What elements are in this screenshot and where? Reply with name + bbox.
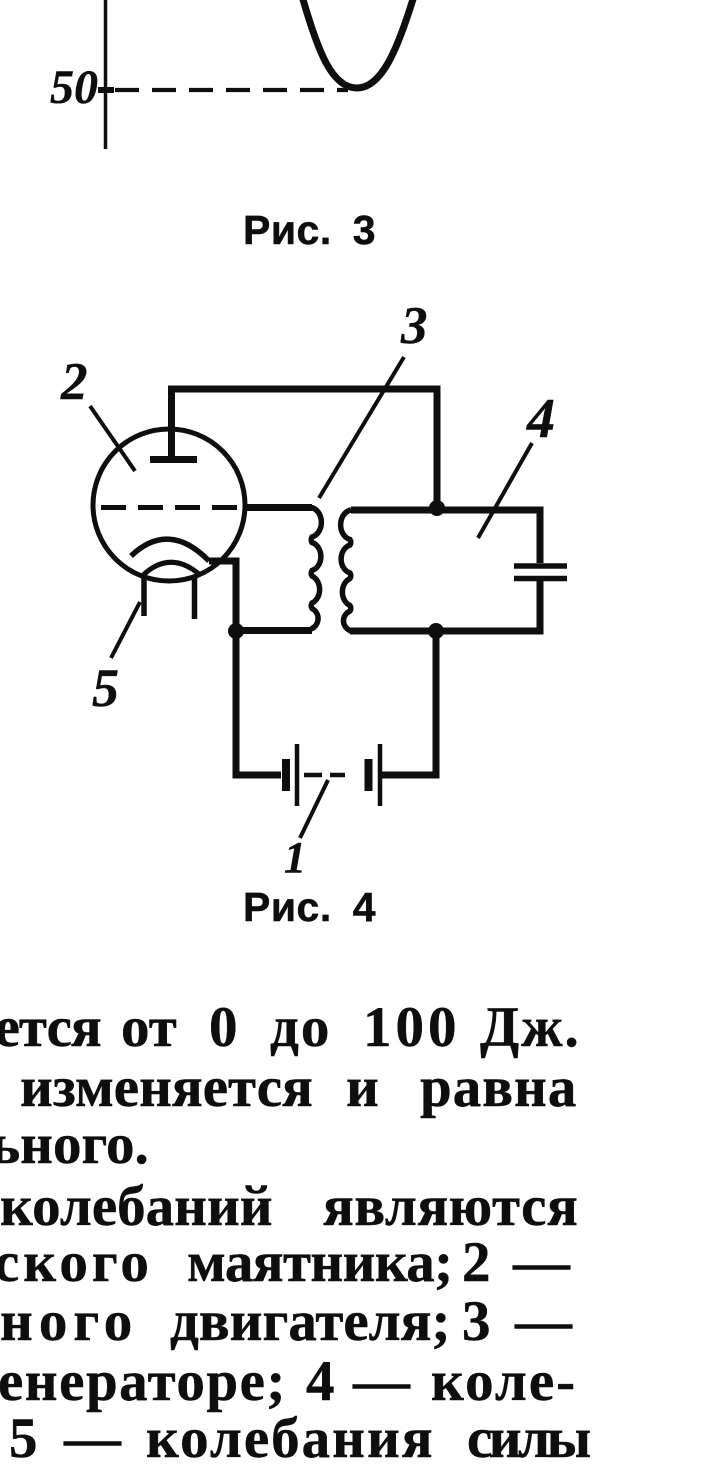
wire: coil L1 bottom to left junction [236,627,312,634]
capacitor C bottom plate [514,576,567,582]
wire: right junction down to battery [382,631,436,775]
battery B cell1 positive plate [295,744,300,806]
tube anode plate [150,456,197,463]
graph: vertical axis [104,0,108,149]
battery B cell2 negative plate [365,759,373,791]
label: 5 (heater lead) [92,657,119,719]
caption Fig.3 [243,207,376,254]
graph: curve trough [302,0,414,88]
tube grid (dashed) [101,505,245,510]
tube cathode arc [131,539,209,561]
battery B cell1 negative plate [282,759,290,791]
graph: dashed level line y=50 [115,88,348,92]
graph: axis tick at 50 [98,87,114,93]
leader line label 5 [111,602,140,658]
label: 4 (tank) [527,387,555,451]
label: 3 (coil) [401,296,428,356]
tube V envelope [93,429,245,581]
wire: tank top to capacitor [351,510,540,563]
node: junction bottom left [228,623,244,639]
node: junction bottom right [428,623,444,639]
battery B cell2 positive plate [378,744,383,806]
label: 50 on axis [50,60,98,115]
caption Fig.4 [243,884,376,931]
coil L1 (grid winding) [311,508,321,630]
paragraph lines [0,994,1,996]
battery B dashed middle [304,773,345,778]
tube heater leg left [141,574,147,616]
leader line label 1 [300,780,328,838]
tube heater arc [141,562,199,577]
tube anode lead and top wire to grid-coil junction [172,389,438,504]
node: junction top (grid feedback) [429,500,445,516]
coil L2 (tank winding) [341,510,351,631]
wire: capacitor bottom to tank bottom [350,581,540,631]
label: 2 (tube) [61,352,88,412]
leader line label 3 [319,357,404,498]
wire: cathode stub down to battery (left branch) [209,561,281,775]
leader line label 2 [90,406,135,471]
leader line label 4 [478,443,532,538]
capacitor C top plate [514,563,567,569]
tube heater leg right [192,575,198,619]
label: 1 (battery) [284,832,306,883]
wire: grid to coil L1 [243,504,312,511]
